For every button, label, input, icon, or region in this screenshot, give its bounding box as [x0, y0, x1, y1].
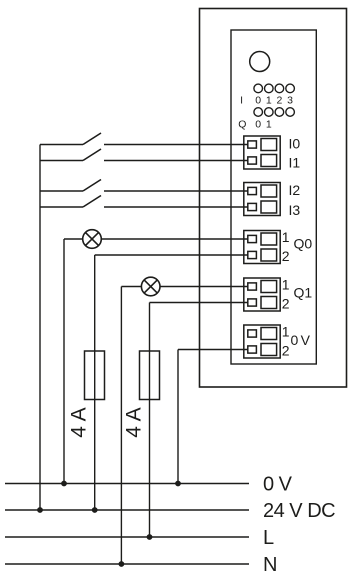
svg-text:0: 0 [255, 119, 261, 131]
svg-text:1: 1 [266, 119, 272, 131]
svg-text:2: 2 [282, 343, 290, 359]
svg-text:1: 1 [282, 276, 290, 292]
wire: fuse F1 vertical to 24 V DC rail [94, 255, 96, 510]
junction: 0V return on 0 V rail [175, 481, 181, 487]
fuse F2 [140, 351, 160, 400]
fuse F1 [85, 351, 105, 400]
power indicator circle [250, 52, 270, 72]
switch S3 blade [83, 180, 101, 192]
switch S4 blade [83, 196, 101, 208]
rail L [5, 536, 249, 538]
wire: bus to switch S4 [40, 206, 83, 208]
junction: lamp H1 on 0 V rail [61, 481, 67, 487]
svg-text:3: 3 [287, 95, 293, 107]
wire: 24V bus vertical [39, 145, 41, 511]
svg-text:4 A: 4 A [122, 407, 145, 437]
svg-text:0 V: 0 V [291, 332, 311, 348]
terminal block Q1 [244, 278, 280, 311]
svg-text:2: 2 [276, 95, 282, 107]
module U1 inner panel [231, 30, 316, 364]
svg-text:2: 2 [282, 296, 290, 312]
wire: lamp H2 return to N rail [120, 287, 122, 565]
terminal block 0V [244, 325, 280, 358]
junction: bus on 24 V DC rail [37, 507, 43, 513]
svg-text:0 V: 0 V [263, 474, 293, 496]
junction: fuse F1 on 24 V DC rail [92, 507, 98, 513]
wire: lamp H1 return to 0 V rail [63, 239, 65, 484]
wire: switch S4 to terminal I3 [104, 206, 248, 208]
wire: corner to lamp H2 [121, 286, 141, 288]
wire: fuse F2 branch to terminal Q1 pin 2 [150, 302, 249, 304]
svg-text:I0: I0 [289, 136, 301, 152]
junction: lamp H2 on N rail [119, 561, 125, 567]
rail 24 V DC [5, 509, 249, 511]
lamp H1 [83, 230, 102, 249]
wire: terminal 0V pin 2 to corner [178, 349, 248, 351]
svg-text:1: 1 [282, 323, 290, 339]
svg-text:Q0: Q0 [294, 236, 313, 252]
switch S2 blade [83, 149, 101, 161]
output status LEDs Q0-Q1 [254, 108, 295, 117]
wire: lamp H2 to terminal Q1 pin 1 [160, 286, 248, 288]
wire: switch S2 to terminal I1 [104, 160, 248, 162]
svg-text:Q1: Q1 [294, 285, 313, 301]
svg-text:I2: I2 [289, 182, 301, 198]
svg-text:1: 1 [266, 95, 272, 107]
rail N [5, 563, 249, 565]
switch S1 blade [83, 133, 101, 145]
svg-text:I3: I3 [289, 202, 301, 218]
rail 0 V [5, 483, 249, 485]
terminal block I2/I3 [244, 183, 280, 216]
input status LEDs I0-I3 [254, 84, 295, 93]
wire: switch S1 to terminal I0 [104, 144, 248, 146]
wire: switch S3 to terminal I2 [104, 190, 248, 192]
svg-text:2: 2 [282, 248, 290, 264]
wire: bus to switch S2 [40, 160, 83, 162]
wire: bus to switch S1 [40, 144, 83, 146]
wire: 0V return vertical to 0 V rail [177, 350, 179, 484]
wire: lamp H1 to terminal Q0 pin 1 [101, 238, 248, 240]
svg-text:Q: Q [238, 119, 246, 131]
svg-text:0: 0 [255, 95, 261, 107]
wire: fuse F2 vertical to L rail [149, 303, 151, 538]
module U1 outer case [200, 9, 347, 388]
label LED row "Q 0 1" [238, 119, 272, 131]
lamp H2 [141, 277, 160, 296]
wire: corner to lamp H1 [64, 238, 83, 240]
svg-text:I: I [240, 95, 243, 107]
svg-text:I1: I1 [289, 154, 301, 170]
svg-text:1: 1 [282, 229, 290, 245]
svg-text:24 V DC: 24 V DC [263, 500, 335, 522]
wire: fuse F1 branch to terminal Q0 pin 2 [95, 254, 248, 256]
terminal block I0/I1 [244, 136, 280, 169]
svg-text:N: N [263, 554, 277, 576]
svg-text:L: L [263, 527, 274, 549]
junction: fuse F2 on L rail [147, 534, 153, 540]
svg-text:4 A: 4 A [68, 407, 91, 437]
label LED row "I 0 1 2 3" [240, 95, 293, 107]
wire: bus to switch S3 [40, 190, 83, 192]
terminal block Q0 [244, 231, 280, 264]
